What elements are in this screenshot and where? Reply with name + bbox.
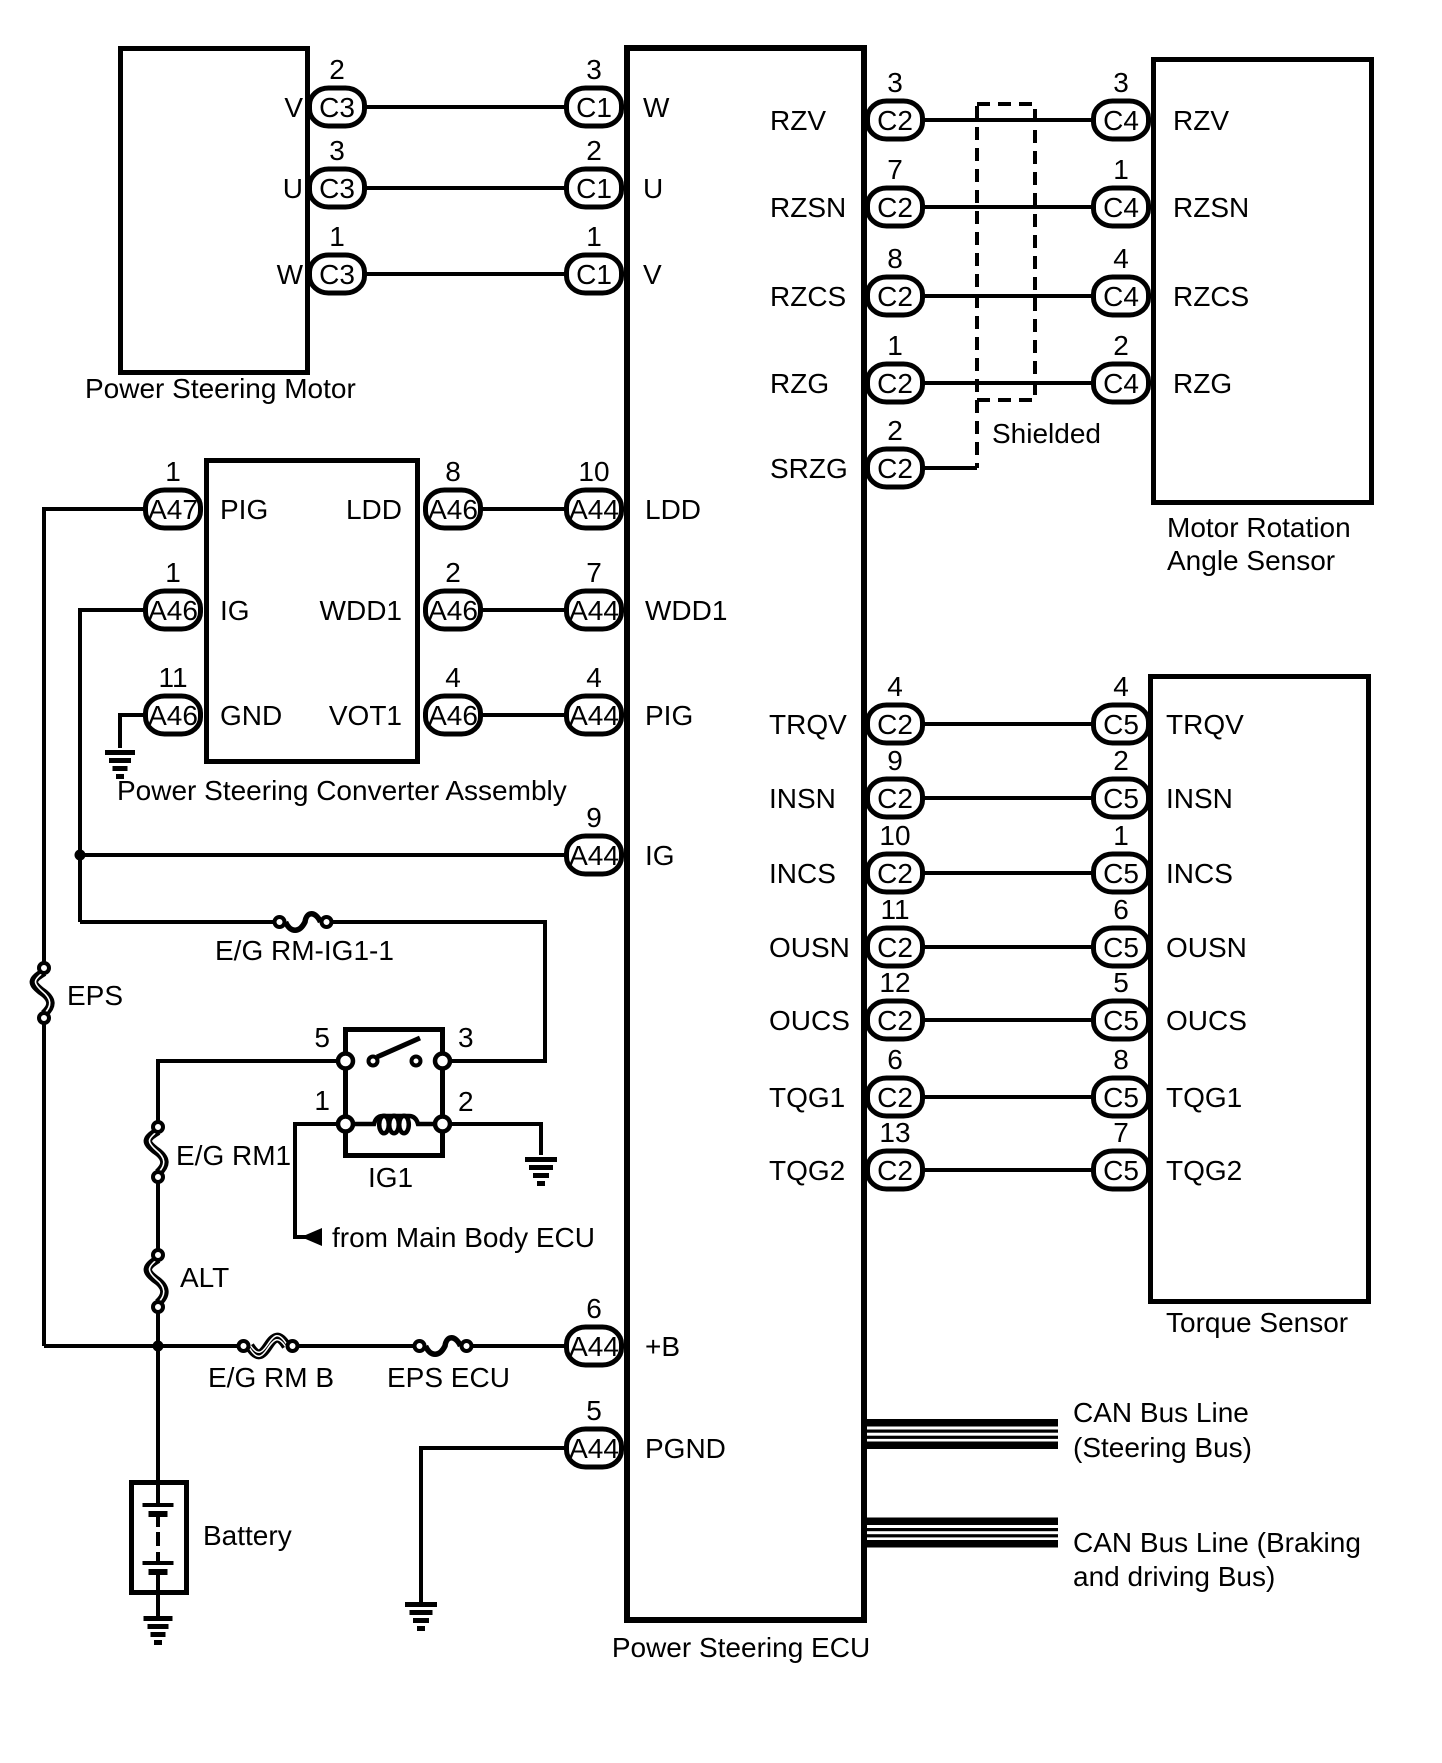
svg-text:2: 2 — [445, 557, 461, 588]
svg-text:7: 7 — [1113, 1117, 1129, 1148]
connector C4 pin 2 (RZG) — [1094, 330, 1149, 402]
svg-text:SRZG: SRZG — [770, 453, 848, 484]
svg-text:INSN: INSN — [1166, 783, 1233, 814]
connector C5 pin 7 (TQG2) — [1094, 1117, 1149, 1189]
connector C5 pin 4 (TRQV) — [1094, 671, 1149, 743]
relay IG1 box — [346, 1030, 443, 1156]
connector C5 pin 2 (INSN) — [1094, 745, 1149, 817]
label RZV (sensor side) — [1173, 105, 1229, 136]
wire SRZG to shield — [925, 466, 977, 470]
wire IG row to A44 — [80, 853, 567, 857]
svg-text:C2: C2 — [877, 453, 913, 484]
label W (ECU side) — [643, 92, 670, 123]
svg-text:6: 6 — [586, 1293, 602, 1324]
svg-text:Angle Sensor: Angle Sensor — [1167, 545, 1335, 576]
svg-text:W: W — [277, 259, 304, 290]
battery cell symbol — [143, 1483, 174, 1592]
label IG1 — [368, 1162, 413, 1193]
svg-text:OUCS: OUCS — [769, 1005, 850, 1036]
label Power Steering Converter Assembly — [117, 775, 567, 806]
svg-text:7: 7 — [887, 154, 903, 185]
wire TRQV C2 to C5 — [925, 722, 1093, 726]
svg-text:1: 1 — [165, 557, 181, 588]
wire C3-3 to C1-2 — [367, 186, 567, 190]
ground (converter GND) — [105, 750, 135, 779]
svg-text:Battery: Battery — [203, 1520, 292, 1551]
connector C3 pin 3 (U) — [310, 135, 365, 207]
connector A44 pin 6 (+B) — [567, 1293, 622, 1365]
svg-text:C4: C4 — [1103, 281, 1139, 312]
connector A44 pin 9 (IG) — [567, 802, 622, 874]
relay coil — [350, 1116, 440, 1134]
svg-text:C5: C5 — [1103, 709, 1139, 740]
label OUSN (ECU side) — [769, 932, 850, 963]
relay terminal 3 — [435, 1022, 474, 1069]
svg-text:C5: C5 — [1103, 858, 1139, 889]
connector C2 pin 6 (TQG1) — [868, 1044, 923, 1116]
fusible link ALT — [148, 1250, 165, 1312]
svg-text:EPS ECU: EPS ECU — [387, 1362, 510, 1393]
connector C1 pin 1 (V) — [567, 221, 622, 293]
connector C1 pin 2 (U) — [567, 135, 622, 207]
svg-text:A46: A46 — [428, 700, 478, 731]
svg-text:and driving Bus): and driving Bus) — [1073, 1561, 1275, 1592]
svg-text:C2: C2 — [877, 1155, 913, 1186]
svg-text:C5: C5 — [1103, 932, 1139, 963]
svg-text:A44: A44 — [569, 1331, 619, 1362]
svg-text:4: 4 — [1113, 243, 1129, 274]
svg-text:8: 8 — [887, 243, 903, 274]
svg-text:C4: C4 — [1103, 192, 1139, 223]
svg-text:C2: C2 — [877, 105, 913, 136]
wire RZCS C2 to C4 — [925, 294, 1093, 298]
svg-text:RZCS: RZCS — [770, 281, 846, 312]
svg-text:OUSN: OUSN — [769, 932, 850, 963]
svg-text:PIG: PIG — [220, 494, 268, 525]
svg-text:C2: C2 — [877, 281, 913, 312]
wire GND to ground — [120, 715, 145, 748]
svg-text:IG: IG — [645, 840, 675, 871]
svg-text:A44: A44 — [569, 700, 619, 731]
svg-text:RZCS: RZCS — [1173, 281, 1249, 312]
svg-text:TRQV: TRQV — [769, 709, 847, 740]
label E/G RM-IG1-1 — [215, 935, 394, 966]
wire LDD A46 to A44 — [483, 507, 567, 511]
svg-text:PGND: PGND — [645, 1433, 726, 1464]
label RZSN (sensor side) — [1173, 192, 1249, 223]
svg-text:W: W — [643, 92, 670, 123]
label TQG1 (ECU side) — [769, 1082, 845, 1113]
label TQG2 (sensor side) — [1166, 1155, 1242, 1186]
label +B (ECU side) — [645, 1331, 680, 1362]
svg-text:C3: C3 — [319, 92, 355, 123]
connector A44 pin 4 (PIG) — [567, 662, 622, 734]
svg-text:A46: A46 — [428, 595, 478, 626]
fuse E/G RM-IG1-1 — [275, 914, 332, 931]
svg-text:2: 2 — [1113, 330, 1129, 361]
svg-text:PIG: PIG — [645, 700, 693, 731]
svg-text:11: 11 — [880, 894, 909, 925]
connector A46 pin 2 (WDD1) — [426, 557, 481, 629]
svg-text:CAN Bus Line (Braking: CAN Bus Line (Braking — [1073, 1527, 1361, 1558]
label Battery — [203, 1520, 292, 1551]
label WDD1 (converter) — [320, 595, 402, 626]
svg-text:U: U — [283, 173, 303, 204]
svg-text:2: 2 — [586, 135, 602, 166]
connector C2 pin 8 (RZCS) — [868, 243, 923, 315]
fusible link E/G RM B — [239, 1336, 298, 1357]
wire battery feed — [156, 1346, 160, 1483]
wire RZSN C2 to C4 — [925, 205, 1093, 209]
label V (ECU side) — [643, 259, 662, 290]
svg-text:RZSN: RZSN — [770, 192, 846, 223]
svg-text:C2: C2 — [877, 1005, 913, 1036]
svg-text:C3: C3 — [319, 173, 355, 204]
connector C5 pin 6 (OUSN) — [1094, 894, 1149, 966]
svg-text:1: 1 — [329, 221, 345, 252]
svg-text:OUCS: OUCS — [1166, 1005, 1247, 1036]
label GND (converter) — [220, 700, 282, 731]
label RZV (ECU side) — [770, 105, 826, 136]
label TRQV (ECU side) — [769, 709, 847, 740]
connector C4 pin 4 (RZCS) — [1094, 243, 1149, 315]
relay terminal 5 — [314, 1022, 353, 1069]
svg-text:4: 4 — [887, 671, 903, 702]
label ALT — [180, 1262, 229, 1293]
label VOT1 (converter) — [329, 700, 402, 731]
label TRQV (sensor side) — [1166, 709, 1244, 740]
ground (relay IG1) — [525, 1157, 557, 1186]
svg-text:2: 2 — [1113, 745, 1129, 776]
svg-text:5: 5 — [586, 1395, 602, 1426]
battery box — [132, 1483, 187, 1593]
svg-text:1: 1 — [314, 1085, 330, 1116]
label IG (ECU side) — [645, 840, 675, 871]
label INCS (sensor side) — [1166, 858, 1233, 889]
label LDD (ECU side) — [645, 494, 701, 525]
connector C2 pin 13 (TQG2) — [868, 1117, 923, 1189]
svg-text:13: 13 — [879, 1117, 910, 1148]
connector C3 pin 1 (W) — [310, 221, 365, 293]
svg-text:A47: A47 — [148, 494, 198, 525]
Torque Sensor box — [1151, 677, 1369, 1302]
svg-text:INCS: INCS — [769, 858, 836, 889]
label TQG2 (ECU side) — [769, 1155, 845, 1186]
label Power Steering ECU — [612, 1632, 870, 1663]
svg-text:Shielded: Shielded — [992, 418, 1101, 449]
connector C2 pin 1 (RZG) — [868, 330, 923, 402]
svg-text:E/G RM-IG1-1: E/G RM-IG1-1 — [215, 935, 394, 966]
svg-text:5: 5 — [314, 1022, 330, 1053]
svg-text:C3: C3 — [319, 259, 355, 290]
wire relay pin 1 to arrow — [295, 1124, 343, 1237]
svg-text:C2: C2 — [877, 858, 913, 889]
arrow from Main Body ECU — [301, 1228, 322, 1246]
node junction IG row — [75, 850, 86, 861]
wire TQG1 C2 to C5 — [925, 1095, 1093, 1099]
label PIG (converter) — [220, 494, 268, 525]
ground (PGND) — [405, 1602, 437, 1631]
svg-text:TRQV: TRQV — [1166, 709, 1244, 740]
svg-text:C1: C1 — [576, 173, 612, 204]
label from Main Body ECU — [332, 1222, 595, 1253]
label E/G RM1 — [176, 1140, 291, 1171]
svg-text:from Main Body ECU: from Main Body ECU — [332, 1222, 595, 1253]
connector C5 pin 8 (TQG1) — [1094, 1044, 1149, 1116]
label V (motor side) — [284, 92, 303, 123]
label RZCS (sensor side) — [1173, 281, 1249, 312]
label INSN (sensor side) — [1166, 783, 1233, 814]
label INCS (ECU side) — [769, 858, 836, 889]
fusible link E/G RM1 — [148, 1122, 165, 1182]
wire VOT1 A46 to A44 — [483, 713, 567, 717]
wire TQG2 C2 to C5 — [925, 1168, 1093, 1172]
svg-text:C2: C2 — [877, 709, 913, 740]
svg-text:C5: C5 — [1103, 783, 1139, 814]
connector A46 pin 11 (GND) — [146, 662, 201, 734]
svg-text:C4: C4 — [1103, 105, 1139, 136]
wire PIG feed (A47 to +B rail) — [44, 509, 145, 1346]
Motor Rotation Angle Sensor box — [1154, 60, 1372, 503]
label Torque Sensor — [1166, 1307, 1348, 1338]
svg-text:A44: A44 — [569, 595, 619, 626]
svg-text:Torque Sensor: Torque Sensor — [1166, 1307, 1348, 1338]
svg-text:EPS: EPS — [67, 980, 123, 1011]
svg-text:RZG: RZG — [770, 368, 829, 399]
svg-text:C4: C4 — [1103, 368, 1139, 399]
wire RZV C2 to C4 — [925, 118, 1093, 122]
label OUSN (sensor side) — [1166, 932, 1247, 963]
svg-text:E/G RM1: E/G RM1 — [176, 1140, 291, 1171]
connector A44 pin 5 (PGND) — [567, 1395, 622, 1467]
connector A44 pin 10 (LDD) — [567, 456, 622, 528]
svg-text:WDD1: WDD1 — [645, 595, 727, 626]
connector C4 pin 1 (RZSN) — [1094, 154, 1149, 226]
svg-text:A46: A46 — [148, 595, 198, 626]
label RZSN (ECU side) — [770, 192, 846, 223]
svg-text:8: 8 — [1113, 1044, 1129, 1075]
svg-text:6: 6 — [887, 1044, 903, 1075]
svg-text:3: 3 — [458, 1022, 474, 1053]
label RZCS (ECU side) — [770, 281, 846, 312]
svg-text:INSN: INSN — [769, 783, 836, 814]
svg-text:C2: C2 — [877, 1082, 913, 1113]
wire relay pin 5 to left rail — [158, 1061, 343, 1346]
label PGND (ECU side) — [645, 1433, 726, 1464]
svg-text:C1: C1 — [576, 259, 612, 290]
connector C5 pin 5 (OUCS) — [1094, 967, 1149, 1039]
svg-text:A44: A44 — [569, 494, 619, 525]
svg-text:2: 2 — [329, 54, 345, 85]
label TQG1 (sensor side) — [1166, 1082, 1242, 1113]
svg-text:6: 6 — [1113, 894, 1129, 925]
svg-text:TQG1: TQG1 — [769, 1082, 845, 1113]
svg-text:A46: A46 — [428, 494, 478, 525]
wire E/G RM-IG1-1 (to relay pin 3) — [80, 922, 545, 1061]
svg-text:LDD: LDD — [645, 494, 701, 525]
connector A46 pin 4 (VOT1) — [426, 662, 481, 734]
label INSN (ECU side) — [769, 783, 836, 814]
connector C4 pin 3 (RZV) — [1094, 67, 1149, 139]
svg-text:C1: C1 — [576, 92, 612, 123]
svg-text:V: V — [643, 259, 662, 290]
svg-text:A46: A46 — [148, 700, 198, 731]
svg-text:TQG2: TQG2 — [769, 1155, 845, 1186]
Power Steering Converter Assembly box — [207, 461, 418, 762]
svg-text:C5: C5 — [1103, 1082, 1139, 1113]
label IG (converter) — [220, 595, 250, 626]
label CAN Bus Line (Steering Bus) — [1073, 1397, 1252, 1463]
relay terminal 2 — [435, 1086, 474, 1132]
svg-text:C5: C5 — [1103, 1005, 1139, 1036]
svg-text:1: 1 — [1113, 154, 1129, 185]
svg-text:RZV: RZV — [770, 105, 826, 136]
svg-text:RZSN: RZSN — [1173, 192, 1249, 223]
svg-text:IG: IG — [220, 595, 250, 626]
svg-text:C2: C2 — [877, 368, 913, 399]
svg-text:3: 3 — [1113, 67, 1129, 98]
connector C2 pin 2 (SRZG) — [868, 415, 923, 487]
svg-text:Power Steering ECU: Power Steering ECU — [612, 1632, 870, 1663]
svg-text:TQG1: TQG1 — [1166, 1082, 1242, 1113]
svg-text:GND: GND — [220, 700, 282, 731]
svg-text:INCS: INCS — [1166, 858, 1233, 889]
svg-text:Power Steering Converter Assem: Power Steering Converter Assembly — [117, 775, 567, 806]
connector C5 pin 1 (INCS) — [1094, 820, 1149, 892]
connector C3 pin 2 (V) — [310, 54, 365, 126]
svg-text:C2: C2 — [877, 932, 913, 963]
svg-text:7: 7 — [586, 557, 602, 588]
relay terminal 1 — [314, 1085, 353, 1132]
svg-text:V: V — [284, 92, 303, 123]
connector A47 pin 1 (PIG) — [146, 456, 201, 528]
svg-text:(Steering Bus): (Steering Bus) — [1073, 1432, 1252, 1463]
wire PGND to ground — [421, 1448, 567, 1602]
svg-text:Power Steering Motor: Power Steering Motor — [85, 373, 356, 404]
svg-text:4: 4 — [445, 662, 461, 693]
label U (motor side) — [283, 173, 303, 204]
connector A46 pin 8 (LDD) — [426, 456, 481, 528]
svg-text:RZG: RZG — [1173, 368, 1232, 399]
svg-text:RZV: RZV — [1173, 105, 1229, 136]
svg-text:2: 2 — [458, 1086, 474, 1117]
connector C2 pin 9 (INSN) — [868, 745, 923, 817]
fuse EPS ECU — [415, 1338, 472, 1355]
label LDD (converter) — [346, 494, 402, 525]
label SRZG (ECU side) — [770, 453, 848, 484]
svg-text:3: 3 — [887, 67, 903, 98]
svg-text:1: 1 — [586, 221, 602, 252]
wire C3-2 to C1-3 — [367, 105, 567, 109]
label E/G RM B — [208, 1362, 334, 1393]
label Shielded — [992, 418, 1101, 449]
svg-text:E/G RM B: E/G RM B — [208, 1362, 334, 1393]
svg-text:1: 1 — [887, 330, 903, 361]
label EPS ECU — [387, 1362, 510, 1393]
svg-text:4: 4 — [586, 662, 602, 693]
svg-text:3: 3 — [329, 135, 345, 166]
svg-text:WDD1: WDD1 — [320, 595, 402, 626]
label Power Steering Motor — [85, 373, 356, 404]
label Motor Rotation Angle Sensor — [1167, 512, 1351, 576]
wire relay pin 2 to ground — [447, 1124, 541, 1155]
svg-text:C2: C2 — [877, 192, 913, 223]
svg-text:TQG2: TQG2 — [1166, 1155, 1242, 1186]
svg-text:1: 1 — [1113, 820, 1129, 851]
svg-text:4: 4 — [1113, 671, 1129, 702]
wire OUCS C2 to C5 — [925, 1018, 1093, 1022]
relay switch contact — [369, 1038, 421, 1066]
svg-text:Motor Rotation: Motor Rotation — [1167, 512, 1351, 543]
connector C2 pin 12 (OUCS) — [868, 967, 923, 1039]
svg-text:A44: A44 — [569, 840, 619, 871]
label U (ECU side) — [643, 173, 663, 204]
svg-text:9: 9 — [586, 802, 602, 833]
wire WDD1 A46 to A44 — [483, 608, 567, 612]
svg-text:5: 5 — [1113, 967, 1129, 998]
wire INCS C2 to C5 — [925, 871, 1093, 875]
svg-text:9: 9 — [887, 745, 903, 776]
label W (motor side) — [277, 259, 304, 290]
node junction battery/+B — [153, 1341, 164, 1352]
ground (battery) — [144, 1616, 173, 1645]
svg-text:C5: C5 — [1103, 1155, 1139, 1186]
wire +B rail — [44, 1344, 567, 1348]
wire battery to ground — [156, 1592, 160, 1616]
wire C3-1 to C1-1 — [367, 272, 567, 276]
label RZG (ECU side) — [770, 368, 829, 399]
svg-text:1: 1 — [165, 456, 181, 487]
label RZG (sensor side) — [1173, 368, 1232, 399]
svg-text:+B: +B — [645, 1331, 680, 1362]
svg-text:10: 10 — [578, 456, 609, 487]
CAN bus line stub (Steering Bus) — [864, 1419, 1058, 1449]
connector C2 pin 7 (RZSN) — [868, 154, 923, 226]
svg-text:LDD: LDD — [346, 494, 402, 525]
connector C2 pin 3 (RZV) — [868, 67, 923, 139]
label OUCS (ECU side) — [769, 1005, 850, 1036]
svg-text:IG1: IG1 — [368, 1162, 413, 1193]
svg-text:10: 10 — [879, 820, 910, 851]
ECU box (Power Steering ECU) — [627, 48, 864, 1620]
svg-text:OUSN: OUSN — [1166, 932, 1247, 963]
label CAN Bus Line (Braking and driving Bus) — [1073, 1527, 1361, 1592]
svg-text:U: U — [643, 173, 663, 204]
connector A46 pin 1 (IG) — [146, 557, 201, 629]
wire RZG C2 to C4 — [925, 381, 1093, 385]
wire INSN C2 to C5 — [925, 796, 1093, 800]
svg-text:ALT: ALT — [180, 1262, 229, 1293]
svg-text:C2: C2 — [877, 783, 913, 814]
svg-text:VOT1: VOT1 — [329, 700, 402, 731]
connector C2 pin 4 (TRQV) — [868, 671, 923, 743]
wire OUSN C2 to C5 — [925, 945, 1093, 949]
svg-text:CAN Bus Line: CAN Bus Line — [1073, 1397, 1249, 1428]
svg-text:8: 8 — [445, 456, 461, 487]
label PIG (ECU side) — [645, 700, 693, 731]
svg-text:12: 12 — [879, 967, 910, 998]
wire IG feed (A46 IG down) — [80, 610, 145, 922]
Power Steering Motor box — [121, 49, 308, 373]
connector C1 pin 3 (W) — [567, 54, 622, 126]
connector C2 pin 10 (INCS) — [868, 820, 923, 892]
connector A44 pin 7 (WDD1) — [567, 557, 622, 629]
label OUCS (sensor side) — [1166, 1005, 1247, 1036]
fusible link EPS — [34, 963, 51, 1023]
label WDD1 (ECU side) — [645, 595, 727, 626]
svg-text:3: 3 — [586, 54, 602, 85]
connector C2 pin 11 (OUSN) — [868, 894, 923, 966]
